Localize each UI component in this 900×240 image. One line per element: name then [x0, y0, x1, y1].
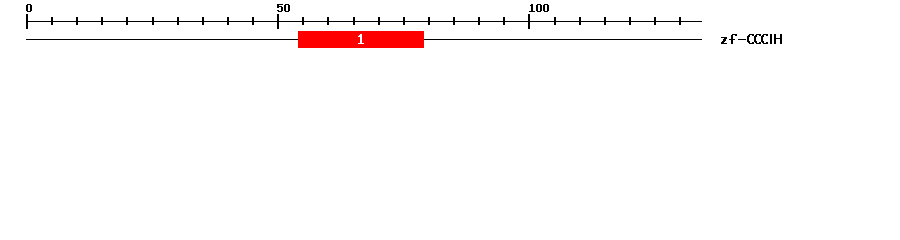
- ruler axis line: [26, 21, 702, 22]
- ruler label 50: [277, 4, 290, 12]
- ruler major tick 100: [528, 14, 530, 29]
- domain number 1: [358, 34, 364, 44]
- ruler major tick 50: [277, 14, 279, 29]
- ruler minor ticks: [51, 17, 681, 25]
- ruler label 100: [529, 4, 549, 12]
- label text zf-CCCH: [721, 34, 782, 44]
- domain box hit 1 (zf-CCCH): [298, 31, 424, 48]
- sequence line: [26, 39, 702, 40]
- ruler major tick 0: [26, 14, 28, 29]
- ruler label 0: [26, 4, 32, 12]
